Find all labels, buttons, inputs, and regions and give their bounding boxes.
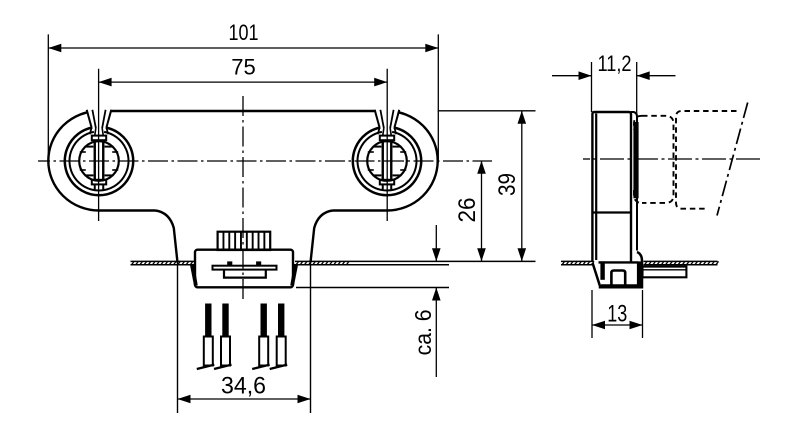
side view horizontal divider: [594, 211, 631, 213]
dimension text 39: [494, 173, 521, 196]
svg-text:34,6: 34,6: [221, 373, 266, 400]
dimension 101 extension lines: [48, 34, 438, 163]
right snap flap wedge: [290, 264, 298, 286]
dimension text 101: [229, 20, 259, 45]
dimension text 26: [454, 198, 481, 223]
horizontal centerline (lamp axis) dash-dot: [38, 160, 492, 162]
svg-text:11,2: 11,2: [598, 51, 632, 76]
svg-text:75: 75: [231, 55, 256, 80]
dimension 11,2 extension lines: [592, 62, 637, 116]
foot cavity top line: [599, 261, 639, 263]
dimension 13 extension lines: [592, 290, 643, 338]
dimension text 13: [607, 300, 627, 327]
dimension 13 line with arrows: [592, 321, 643, 330]
dimension ca.6 leader lines: [432, 225, 441, 377]
lamp tube phantom outline (dashed): [676, 111, 737, 209]
panel hatch left (side view): [562, 261, 594, 264]
panel bottom line (side view): [561, 264, 718, 266]
front view right neck outline to mounting flange: [311, 211, 333, 263]
foot cavity bottom: [601, 284, 637, 286]
panel hatch left segment: [132, 261, 193, 264]
dimension 26 line with arrows: [477, 161, 486, 261]
svg-text:ca. 6: ca. 6: [410, 309, 436, 355]
left snap flap wedge: [190, 264, 198, 286]
clip bottom extension line: [296, 287, 449, 289]
dimension 11,2 line with outside arrows: [552, 71, 676, 80]
panel top line (side view): [561, 260, 718, 262]
svg-text:26: 26: [454, 198, 481, 223]
central mounting block: [195, 250, 293, 288]
side view body outline: [592, 112, 631, 262]
solder pin 2: [214, 304, 232, 370]
side view snap foot outline: [593, 252, 642, 287]
foot cavity left wall: [600, 261, 604, 279]
lamp-holder bracket front view outer body outline: [48, 111, 437, 211]
contact strip (side view): [643, 267, 687, 278]
dimension 75 line with arrows: [99, 78, 388, 87]
vertical centerline left socket / 75 extension: [98, 69, 100, 221]
lamp cap phantom outline (dashed): [634, 116, 674, 203]
solder pin 1: [197, 304, 215, 370]
svg-text:101: 101: [229, 20, 259, 45]
panel top line (front view): [131, 260, 536, 262]
left contact lug (filled): [227, 261, 232, 265]
foot cavity right wall: [637, 261, 641, 286]
solder pin 3: [252, 304, 270, 370]
dimension 39 line with arrows: [518, 111, 527, 261]
panel bottom line (front view): [131, 264, 450, 266]
lower channel inside block: [224, 270, 266, 278]
knob ribs: [223, 232, 264, 250]
left lamp socket (ring, rotor, slot, funnel): [65, 109, 133, 196]
solder pin 4: [270, 304, 288, 370]
contact carrier bar inside block: [213, 266, 277, 270]
svg-text:39: 39: [494, 173, 521, 196]
side view body inner wall line: [595, 114, 597, 261]
side view centerline dash-dot: [583, 158, 760, 160]
dimension text ca. 6: [410, 309, 436, 355]
ribbed adjuster knob outline: [218, 232, 271, 250]
break line (dash-dot): [717, 103, 748, 216]
dimension text 11,2: [598, 51, 632, 76]
svg-text:13: 13: [607, 300, 627, 327]
dimension text 34,6: [221, 373, 266, 400]
dimension 34,6 extension lines: [178, 263, 311, 414]
dimension text 75: [231, 55, 256, 80]
vertical centerline right socket / 75 extension: [386, 69, 388, 221]
foot inner hook: [611, 271, 625, 287]
dimension 34,6 line with arrows: [178, 395, 311, 404]
panel hatch right segment: [296, 261, 349, 264]
top edge extension line: [438, 110, 536, 112]
dimension 101 line with arrows: [48, 44, 438, 53]
panel hatch right (side view): [645, 261, 719, 264]
right lamp socket (ring, rotor, slot, funnel): [353, 109, 421, 196]
central vertical centerline dash-dot: [242, 96, 244, 302]
right contact lug (filled): [256, 261, 261, 265]
front view left neck outline to mounting flange: [156, 211, 178, 263]
side view front plate edge: [631, 112, 637, 251]
lamp pin slot (filled bar): [633, 122, 638, 198]
